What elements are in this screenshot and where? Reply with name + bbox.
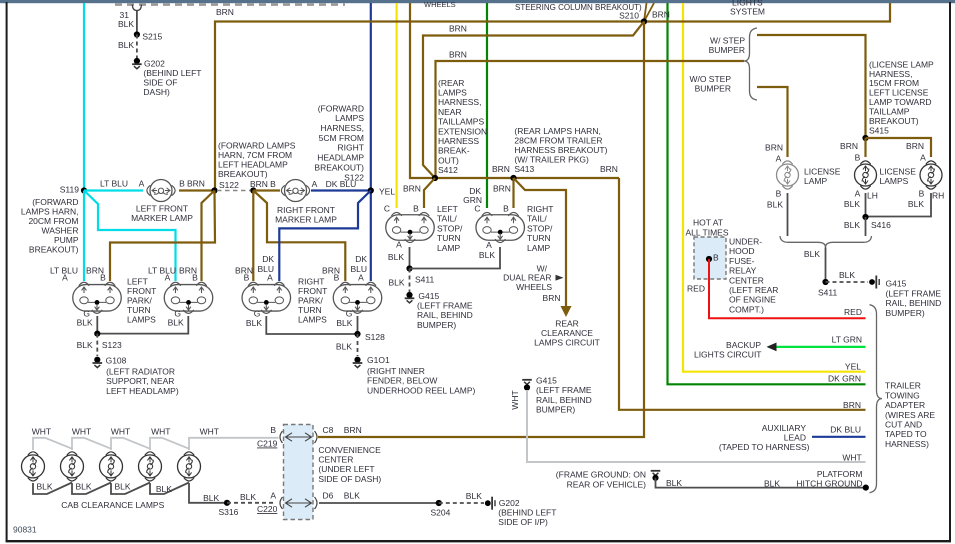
svg-text:HEADLAMP: HEADLAMP <box>317 153 364 163</box>
svg-text:RIGHT: RIGHT <box>527 204 553 214</box>
label BLK S416 <box>844 220 860 230</box>
svg-text:YEL: YEL <box>845 362 861 372</box>
label BLK S204 <box>466 491 482 501</box>
svg-text:A: A <box>267 273 273 283</box>
lamp LEFT FRONT PARK/TURN LAMP 2 <box>164 282 213 313</box>
ground G415 frame symbol <box>869 276 879 289</box>
label A right tail <box>486 240 492 250</box>
svg-text:BLK: BLK <box>203 493 219 503</box>
svg-text:BREAKOUT): BREAKOUT) <box>29 245 79 255</box>
wire BLK S128 to G1O1 dashed <box>357 334 359 356</box>
svg-text:LAMP: LAMP <box>437 243 460 253</box>
svg-text:BLK: BLK <box>118 40 134 50</box>
label RED adapter <box>844 307 862 317</box>
svg-text:SUPPORT, NEAR: SUPPORT, NEAR <box>106 376 174 386</box>
svg-text:BRN: BRN <box>449 49 467 59</box>
label LIGHTS CIRCUIT <box>694 350 762 360</box>
label G415 frame <box>886 279 907 289</box>
splice S415 <box>862 135 868 141</box>
svg-text:WHEELS: WHEELS <box>424 0 456 9</box>
svg-text:LEFT HEADLAMP): LEFT HEADLAMP) <box>106 386 179 396</box>
svg-text:TRAILER: TRAILER <box>885 381 921 391</box>
svg-text:BLK: BLK <box>156 484 172 494</box>
wire BLK cab lamp 2 link <box>72 483 111 495</box>
wire BRN from lights system to S412 <box>410 3 433 178</box>
label CONVENIENCE CENTER <box>318 445 381 484</box>
svg-text:(LEFT REAR: (LEFT REAR <box>729 285 778 295</box>
label BLK pt4g <box>336 318 352 328</box>
wire WHT cab lamp 2 link <box>72 438 111 450</box>
label BLK s215 <box>118 40 134 50</box>
label G202 location <box>143 68 201 97</box>
wire BLK left tail A to S411 <box>409 247 411 269</box>
svg-text:BLK: BLK <box>804 249 820 259</box>
label BRN lic single <box>765 143 783 153</box>
label DK GRN adapter <box>828 374 861 384</box>
svg-text:BRN: BRN <box>652 9 670 19</box>
label BLK LH <box>844 199 860 209</box>
right border <box>949 2 951 542</box>
wire BLK 31 to S215 <box>136 11 138 35</box>
lamp LEFT FRONT PARK/TURN LAMP 1 <box>73 282 122 313</box>
svg-text:RIGHT: RIGHT <box>298 276 324 286</box>
wire LT BLU S119 to PT lamp2 pin A <box>84 191 176 282</box>
svg-text:(FRAME GROUND: ON: (FRAME GROUND: ON <box>556 470 646 480</box>
wire WHT cab lamp 4 link <box>150 438 189 450</box>
svg-text:HARNESS,: HARNESS, <box>321 123 364 133</box>
ground frame ground symbol <box>651 471 661 476</box>
label S411 license <box>818 288 837 298</box>
lamp RIGHT FRONT MARKER LAMP <box>281 180 309 202</box>
svg-text:REAR OF VEHICLE): REAR OF VEHICLE) <box>567 479 647 489</box>
wire BRN S122a to PT lamp2 pin B <box>202 191 215 282</box>
svg-text:UNDERHOOD REEL LAMP): UNDERHOOD REEL LAMP) <box>367 385 475 395</box>
splice S122 a <box>211 187 217 193</box>
label S119 <box>60 185 79 195</box>
svg-text:5CM FROM: 5CM FROM <box>319 133 364 143</box>
svg-text:BLK: BLK <box>666 478 682 488</box>
wire BLK S411 to G415 dashed <box>409 269 411 293</box>
label HITCH GROUND <box>796 479 862 489</box>
wire BRN S413 to trailer adapter <box>619 178 866 410</box>
svg-text:CENTER: CENTER <box>318 455 353 465</box>
svg-text:RED: RED <box>844 307 862 317</box>
svg-text:A: A <box>776 154 782 164</box>
svg-text:HARN, 7CM FROM: HARN, 7CM FROM <box>218 150 292 160</box>
label LICENSE LAMPS <box>880 166 917 186</box>
svg-text:DK GRN: DK GRN <box>828 374 861 384</box>
svg-text:(LEFT FRAME: (LEFT FRAME <box>417 301 473 311</box>
label BLK RH <box>908 199 924 209</box>
svg-text:B: B <box>413 204 419 214</box>
svg-text:FENDER, BELOW: FENDER, BELOW <box>367 376 437 386</box>
lamp CAB CLEARANCE LAMP 3 <box>100 452 123 481</box>
bottom border <box>6 540 951 542</box>
ground G415 tail symbol <box>405 298 415 303</box>
label S210 <box>619 11 639 21</box>
label B pt1 <box>100 273 106 283</box>
wire WHT cab lamp 3 link <box>111 438 150 450</box>
ground G202 frame symbol <box>485 497 495 510</box>
svg-text:FUSE-: FUSE- <box>729 256 755 266</box>
label BRN adapter <box>843 400 861 410</box>
svg-text:LT BLU: LT BLU <box>100 178 128 188</box>
svg-text:LAMP: LAMP <box>804 176 827 186</box>
label BLK pt1 <box>77 318 93 328</box>
svg-text:SYSTEM: SYSTEM <box>730 7 765 17</box>
label BRN left tail B <box>403 184 421 194</box>
splice S412 <box>432 175 438 181</box>
svg-text:S123: S123 <box>102 340 122 350</box>
svg-text:WASHER: WASHER <box>42 226 79 236</box>
label B C219 <box>270 425 276 435</box>
label YEL near junction <box>379 187 395 197</box>
left border <box>6 2 8 542</box>
label G1O1 <box>367 355 390 365</box>
label B S122b <box>270 179 276 189</box>
lamp CAB CLEARANCE LAMP 1 <box>22 452 45 481</box>
label S411 tail <box>415 274 434 284</box>
label BLU pt3 <box>257 264 274 274</box>
label LT BLU pt1 <box>50 266 78 276</box>
wire RED fuse B to trailer adapter <box>709 259 866 318</box>
label WHT cab 2 <box>72 427 91 437</box>
svg-text:TURN: TURN <box>437 233 461 243</box>
svg-text:B: B <box>192 273 198 283</box>
ground G1O1 symbol <box>353 363 363 368</box>
label rear lamps harness S412 <box>438 78 487 175</box>
svg-text:(LEFT FRAME: (LEFT FRAME <box>886 288 942 298</box>
ground G415 mid dot <box>524 384 530 390</box>
label BLK pt2 <box>168 318 184 328</box>
svg-text:S122: S122 <box>219 180 239 190</box>
label 90831 <box>13 525 37 535</box>
svg-text:A: A <box>139 178 145 188</box>
lamp LICENSE LAMP LH <box>855 161 877 189</box>
label license harness <box>869 59 934 126</box>
svg-text:BLK: BLK <box>344 491 360 501</box>
svg-text:C: C <box>384 204 390 214</box>
label LIGHTS <box>732 0 763 8</box>
wire BLK cab lamp 5 to S316 <box>189 483 227 503</box>
label BLK cab 2 <box>76 482 92 492</box>
svg-text:PARK/: PARK/ <box>127 295 153 305</box>
wire BLK RH to S416 <box>866 193 932 217</box>
wire BRN S210 stub to top a <box>644 3 647 22</box>
wire DK GRN from top to right tail pin C <box>486 3 488 208</box>
wire WHT cab lamp 5 to C219 <box>189 438 279 450</box>
label A marker2 <box>312 179 318 189</box>
svg-text:S411: S411 <box>818 288 837 298</box>
label BRN C8 <box>344 425 362 435</box>
svg-text:PLATFORM: PLATFORM <box>817 469 863 479</box>
wire BLK S204 to G202 dashed <box>439 502 484 504</box>
label G415 frame location <box>886 288 942 317</box>
svg-text:BUMPER): BUMPER) <box>417 320 456 330</box>
svg-text:LAMPS HARN,: LAMPS HARN, <box>21 207 79 217</box>
wire BRN w/ step bumper to S415 <box>757 35 866 138</box>
svg-text:B: B <box>270 425 276 435</box>
wire YEL from top to trailer adapter <box>683 3 866 372</box>
wire BLK cab lamp 4 link <box>150 483 189 495</box>
label G pt4 <box>346 309 353 319</box>
label S215 <box>142 32 162 42</box>
svg-text:PUMP: PUMP <box>54 235 79 245</box>
svg-text:S119: S119 <box>60 185 79 195</box>
label BLU pt4 <box>350 264 367 274</box>
svg-text:DK: DK <box>355 254 367 264</box>
label LT BLU pt2 <box>148 266 176 276</box>
svg-text:LIGHTS CIRCUIT: LIGHTS CIRCUIT <box>694 350 762 360</box>
brace license grounds <box>780 236 872 248</box>
label TRAILER TOWING ADAPTER <box>885 381 935 449</box>
svg-text:TURN: TURN <box>127 305 151 315</box>
lamp RIGHT FRONT PARK/TURN LAMP 3 <box>242 282 290 313</box>
svg-text:LEFT HEADLAMP: LEFT HEADLAMP <box>218 160 288 170</box>
svg-text:A: A <box>62 273 68 283</box>
svg-text:LAMP: LAMP <box>527 243 550 253</box>
svg-text:BLK: BLK <box>115 482 131 492</box>
svg-text:S128: S128 <box>365 332 385 342</box>
label S119 harness <box>21 197 79 255</box>
svg-text:BRN: BRN <box>543 293 561 303</box>
label BLK platform b <box>764 479 780 489</box>
lamp CAB CLEARANCE LAMP 4 <box>139 452 162 481</box>
lamp RIGHT TAIL/STOP/TURN LAMP <box>476 212 525 242</box>
svg-text:G415: G415 <box>418 291 439 301</box>
label BLK right tail <box>479 250 495 260</box>
svg-text:HOOD: HOOD <box>729 246 755 256</box>
label B fuse center <box>713 252 719 262</box>
label REAR OF VEHICLE <box>567 479 647 489</box>
svg-text:BLK: BLK <box>246 318 262 328</box>
label B right tail <box>503 204 509 214</box>
svg-text:G108: G108 <box>106 356 127 366</box>
wire BLK platform hitch ground <box>656 478 866 488</box>
label S204 <box>431 508 451 518</box>
lamp CAB CLEARANCE LAMP 2 <box>61 452 84 481</box>
svg-text:LAMPS: LAMPS <box>880 176 909 186</box>
svg-text:BLK: BLK <box>844 220 860 230</box>
wire BLK pt2 G to S123 <box>97 316 188 334</box>
svg-text:A: A <box>855 188 861 198</box>
label FRAME GROUND ON <box>556 470 646 480</box>
label D6 <box>323 491 334 501</box>
wire LT BLU from top to S119 <box>83 3 85 191</box>
svg-text:TAILLAMPS: TAILLAMPS <box>438 117 484 127</box>
svg-text:B: B <box>919 188 925 198</box>
splice S122 b <box>250 187 256 193</box>
svg-text:HITCH GROUND: HITCH GROUND <box>796 479 862 489</box>
lamp LICENSE LAMP RH <box>920 161 942 189</box>
label BLK lic single <box>767 200 783 210</box>
svg-text:C220: C220 <box>257 504 278 514</box>
splice S413 <box>510 175 516 181</box>
svg-text:W/ STEP: W/ STEP <box>710 36 745 46</box>
ground G1O1 dot <box>354 357 360 363</box>
label HOT AT <box>693 218 723 228</box>
svg-text:ALL TIMES: ALL TIMES <box>686 227 729 237</box>
svg-text:G415: G415 <box>536 376 557 386</box>
svg-text:STOP/: STOP/ <box>437 223 463 233</box>
label BLK cab 3 <box>115 482 131 492</box>
svg-text:HARNESS,: HARNESS, <box>438 97 481 107</box>
svg-text:B: B <box>334 273 340 283</box>
svg-text:BLK: BLK <box>76 482 92 492</box>
label YEL adapter <box>845 362 861 372</box>
svg-text:UNDER-: UNDER- <box>729 237 762 247</box>
label WHT cab 5 <box>200 427 219 437</box>
label UNDERHOOD FUSE-RELAY CENTER <box>729 237 778 315</box>
label PLATFORM <box>817 469 863 479</box>
label BRN pt2 <box>179 266 197 276</box>
svg-text:C8: C8 <box>323 425 334 435</box>
label DK BLU adapter <box>830 424 861 434</box>
lamp LICENSE LAMP single <box>777 161 799 189</box>
label BLK platform a <box>666 478 682 488</box>
svg-text:BLK: BLK <box>764 479 780 489</box>
svg-text:B: B <box>503 204 509 214</box>
label G415 mid <box>536 376 557 386</box>
label A lic single <box>776 154 782 164</box>
lamp LEFT FRONT MARKER LAMP <box>147 180 175 202</box>
label LT BLU marker1 <box>100 178 128 188</box>
label WO STEP BUMPER <box>695 84 731 94</box>
label BRN lic LH <box>840 141 858 151</box>
label AUXILIARY <box>762 423 807 433</box>
svg-text:CAB CLEARANCE LAMPS: CAB CLEARANCE LAMPS <box>61 500 164 510</box>
label G pt3 <box>254 309 261 319</box>
wire DK GRN from top to trailer adapter <box>668 3 866 384</box>
wire BRN S122b to PT lamp4 pin B <box>253 191 345 282</box>
svg-text:WHT: WHT <box>842 452 861 462</box>
wire BRN S210 right to lights system <box>644 3 890 22</box>
wire DK BLU junction to PT lamp3 pin A <box>279 191 371 282</box>
wire BLK LH to S416 <box>865 193 867 217</box>
svg-text:S411: S411 <box>415 274 434 284</box>
splice S119 <box>81 187 87 193</box>
svg-text:OUT): OUT) <box>438 155 459 165</box>
svg-text:A: A <box>312 179 318 189</box>
node platform hitch end <box>863 485 869 491</box>
label G415 tail location <box>417 301 473 330</box>
svg-text:MARKER LAMP: MARKER LAMP <box>131 213 193 223</box>
svg-text:HOT AT: HOT AT <box>693 218 723 228</box>
splice S128 <box>354 331 360 337</box>
label BLK 31wire <box>118 19 134 29</box>
label BRN wire1 <box>216 7 234 17</box>
wire BLK brace to S411 license <box>825 248 827 283</box>
svg-text:HARNESS: HARNESS <box>438 136 479 146</box>
label GRN right tail <box>463 195 482 205</box>
svg-text:BRN: BRN <box>216 7 234 17</box>
label B lic RH <box>919 188 925 198</box>
svg-text:LH: LH <box>867 191 878 201</box>
label BLK S123 <box>77 340 93 350</box>
wire BRN S412 to step bumper brace <box>436 61 745 178</box>
wire YEL from top to left tail pin C <box>396 3 398 208</box>
label A pt1 <box>62 273 68 283</box>
label BRN pt4 <box>322 266 340 276</box>
svg-text:RAIL, BEHIND: RAIL, BEHIND <box>886 298 942 308</box>
label S416 <box>871 220 891 230</box>
wire WHT cab lamp 1 link <box>33 438 72 450</box>
lamp CAB CLEARANCE LAMP 5 <box>178 452 201 481</box>
svg-text:LT BLU: LT BLU <box>148 266 176 276</box>
label WHEELS dual <box>516 282 552 292</box>
svg-text:B: B <box>270 179 276 189</box>
svg-text:YEL: YEL <box>379 187 395 197</box>
label BLK S411 tail <box>389 278 405 288</box>
svg-text:S215: S215 <box>142 32 162 42</box>
svg-text:B: B <box>713 252 719 262</box>
wire BRN S412 to S413 to right <box>433 177 619 179</box>
svg-text:B: B <box>776 188 782 198</box>
label B pt4 <box>334 273 340 283</box>
label BRN marker1 <box>187 178 205 188</box>
svg-text:BLK: BLK <box>479 250 495 260</box>
svg-text:LEAD: LEAD <box>784 432 806 442</box>
label BRN lic RH <box>906 141 924 151</box>
svg-text:TAPED TO: TAPED TO <box>885 429 927 439</box>
wire BRN w/o step bumper to license lamp <box>757 87 788 157</box>
svg-text:S316: S316 <box>219 507 239 517</box>
wire BRN S210 stub to top b <box>644 3 654 22</box>
svg-text:BLK: BLK <box>466 491 482 501</box>
svg-text:DASH): DASH) <box>143 87 170 97</box>
wire BLK S215 to G202 dashed <box>136 35 138 60</box>
svg-text:FRONT: FRONT <box>127 286 156 296</box>
svg-text:LAMPS: LAMPS <box>127 314 156 324</box>
label DK right tail <box>469 186 481 196</box>
svg-text:90831: 90831 <box>13 525 37 535</box>
svg-text:MARKER LAMP: MARKER LAMP <box>275 214 337 224</box>
ground G415 mid symbol <box>522 380 532 385</box>
label BRN dual <box>543 293 561 303</box>
label BLK pt3g <box>246 318 262 328</box>
label B pt3 <box>244 273 250 283</box>
label 31 <box>120 10 130 20</box>
svg-text:REAR: REAR <box>555 318 579 328</box>
svg-text:WHT: WHT <box>510 390 520 409</box>
label BLK cab 1 <box>37 482 53 492</box>
svg-text:G1O1: G1O1 <box>367 355 390 365</box>
svg-text:G415: G415 <box>886 279 907 289</box>
svg-text:(FORWARD: (FORWARD <box>318 103 364 113</box>
svg-text:LEFT: LEFT <box>127 276 148 286</box>
wire BRN S122b to marker2 pin B <box>253 189 280 191</box>
top dashed breakout line <box>115 3 345 6</box>
label C left tail <box>384 204 390 214</box>
label RIGHT FRONT PARK/TURN LAMPS <box>298 276 327 324</box>
wire BLK S123 to G108 dashed <box>96 334 98 356</box>
splice S416 <box>862 214 868 220</box>
wire BRN S412 to left tail pin B <box>424 178 435 208</box>
connector C220 left half <box>280 497 283 509</box>
svg-text:LICENSE: LICENSE <box>804 166 841 176</box>
label S128 <box>365 332 385 342</box>
svg-text:BLK: BLK <box>388 252 404 262</box>
svg-text:BUMPER): BUMPER) <box>886 308 925 318</box>
wire LT BLU S119 down to PT lamp1 pin A <box>83 191 85 282</box>
svg-text:B: B <box>855 153 861 163</box>
svg-text:SIDE OF DASH): SIDE OF DASH) <box>318 474 381 484</box>
splice S411 tail <box>406 265 412 271</box>
splice S316 <box>224 500 230 506</box>
svg-text:BLK: BLK <box>168 318 184 328</box>
connector 31 cup <box>132 5 141 11</box>
svg-text:BLK: BLK <box>240 492 256 502</box>
